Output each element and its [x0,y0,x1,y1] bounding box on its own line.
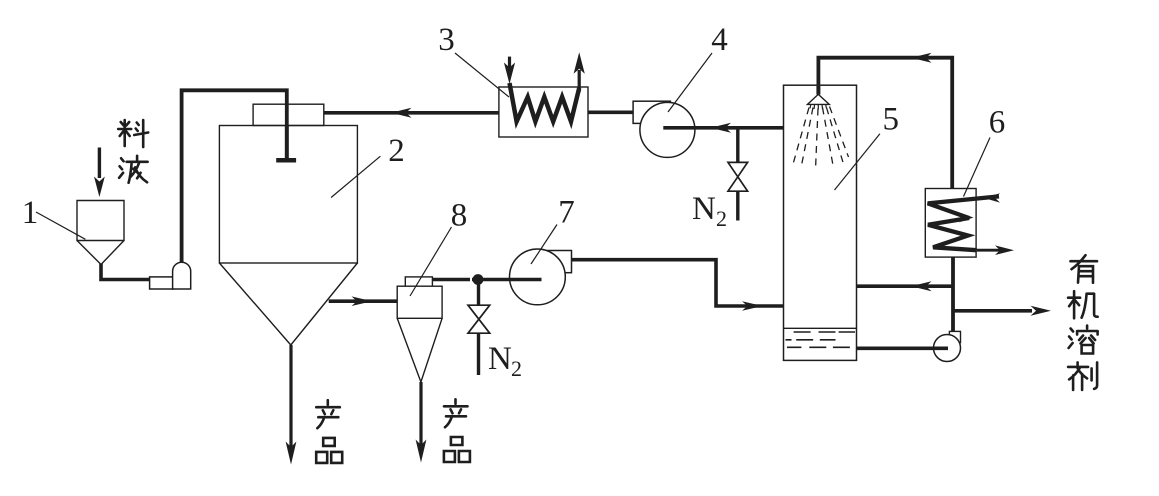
wire recycle return into column [857,284,953,288]
pointer line 4 [668,53,712,112]
svg-text:2: 2 [511,356,522,381]
svg-text:N: N [488,341,512,377]
product arrow from cyclone 8 [419,382,422,445]
dryer 2 sparger T-bar [276,158,296,163]
HX3 zigzag coil [510,83,580,122]
wire dryer cone to cyclone 8 [329,299,398,303]
HX6 zigzag coil [928,196,999,250]
bottom pump tab [949,331,960,342]
label 有机溶剂 [1071,255,1098,283]
wire riser from blower to dryer top [182,90,287,263]
wire cyclone 8 to pump 7 [432,278,470,282]
pump 7 circle [510,249,566,305]
arrow right into column [742,301,763,311]
N2 valve (pump4 line) [728,162,748,191]
svg-text:7: 7 [558,195,575,231]
wire junction down to N2 valve [477,280,480,306]
cyclone 8 top nozzle [405,277,432,286]
product arrow from dryer 2 [289,345,292,447]
wire hopper outlet to blower [101,262,151,280]
dryer 2 top nozzle [253,104,324,125]
HX6 inlet arrow (left) [984,193,1001,202]
svg-text:4: 4 [711,22,728,58]
wire HX3 to pump 4 [588,111,633,115]
wire solvent outlet [954,309,1033,313]
wire top recycle: column top to HX6 [818,58,952,189]
liquid dashes [786,332,856,347]
dryer 2 cone [219,263,357,345]
wire into pump 7 center [472,278,542,282]
dryer 2 internal pipe [285,126,289,159]
cyclone 8 body [397,286,442,318]
spray feed pipe [816,86,820,95]
svg-text:6: 6 [989,105,1006,141]
column 5 body [784,85,857,360]
cyclone 8 cone [397,318,442,382]
pointer line 7 [531,225,557,265]
junction dot [473,274,484,285]
HX6 coil dart 2 [958,231,973,241]
nozzle ticks [810,105,827,110]
spray dashed rays [793,107,849,171]
pump 4 circle [640,102,695,157]
wire down to N2 valve (pump4 line) [736,128,739,163]
arrow left toward dryer [391,108,412,118]
svg-text:2: 2 [716,206,727,231]
arrow left on top recycle [911,53,932,63]
hopper 1 [77,201,124,265]
pointer line 1 [36,212,85,239]
wire HX3 to dryer nozzle [324,111,499,115]
wire pump 4 outlet to column 5 [663,126,784,130]
wire pump 7 outlet to column 5 [572,260,785,306]
svg-text:1: 1 [22,195,39,231]
pointer line 8 [410,227,452,296]
arrow right on wire [352,296,373,306]
heat exchanger 6 box [925,189,976,258]
pointer line 5 [835,134,880,190]
label 料液 [118,120,148,147]
wire HX6 bottom down to pump [951,257,955,332]
wire below valve [477,333,480,375]
pointer line 6 [964,138,991,197]
svg-text:2: 2 [388,133,405,169]
bottom pump circle [934,335,961,362]
spray dryer 2 body [219,126,357,264]
svg-text:3: 3 [438,22,455,58]
arrow right solvent outlet [1031,306,1052,316]
HX6 outlet arrow (right) [995,245,1014,255]
label 产品 (cyclone product) [444,399,468,427]
spray nozzle [808,94,830,104]
arrow left toward pump 4 [711,123,732,133]
pointer line 2 [331,156,380,197]
feed arrow into hopper 1 [98,148,101,179]
HX6 coil dart 1 [959,213,974,223]
pump 4 tab [633,101,670,123]
HX3 outlet arrow (up) [578,70,581,92]
N2 valve (cyclone line) [468,305,490,333]
arrow left into column [911,281,932,291]
blower (feed) [150,277,174,289]
svg-text:N: N [692,191,716,227]
svg-text:5: 5 [882,102,899,138]
heat exchanger 3 box [499,87,588,137]
pointer line 3 [455,53,509,97]
HX3 inlet arrow (down) [508,57,511,70]
label 产品 (dryer product) [316,400,340,428]
svg-text:8: 8 [451,198,468,234]
wire column bottom to pump [857,346,949,350]
HX6 outlet wire [977,249,1000,252]
pump 7 tab [545,251,572,273]
wire below valve [736,191,739,220]
column 5 liquid separator line [784,327,857,329]
